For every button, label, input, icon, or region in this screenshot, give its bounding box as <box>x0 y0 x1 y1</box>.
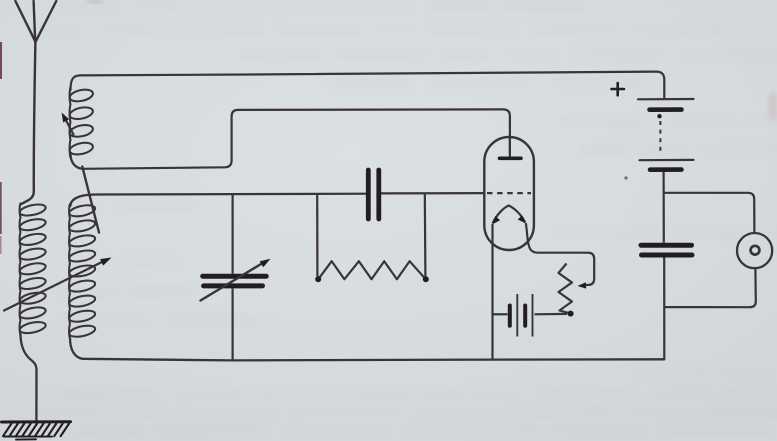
wire: junction to phones top <box>664 193 755 233</box>
wire: B battery to bypass cap <box>662 172 664 243</box>
variable tap arrow for L1 <box>4 258 112 311</box>
wire: tickler top to B battery + <box>80 72 664 99</box>
tickler adjust arrow <box>62 113 74 135</box>
grid leak resistor R1 <box>315 194 429 283</box>
inductor L1 antenna coil <box>19 202 47 421</box>
bypass capacitor C3 <box>641 245 692 255</box>
antenna <box>15 1 56 204</box>
wire: phones bottom to rail junction <box>664 268 756 307</box>
variable capacitor C1 <box>201 194 271 360</box>
wire: filament right leg to rheostat <box>526 223 594 286</box>
inductor L2 secondary coil <box>68 195 97 359</box>
wire: grid lead <box>97 193 366 196</box>
wire: filament left leg down <box>491 224 493 359</box>
variable tap line for L2 <box>82 167 99 233</box>
wire: tickler bottom to plate <box>83 109 510 168</box>
wire: bottom rail <box>82 359 664 361</box>
battery B2 (plate supply) <box>612 83 694 170</box>
rheostat R2 <box>559 264 574 317</box>
ground (earth) <box>2 422 71 440</box>
grid capacitor C2 <box>368 170 379 219</box>
phones P <box>737 233 772 268</box>
inductor L3 tickler coil <box>69 75 94 168</box>
vacuum tube V1 (triode) <box>484 137 534 250</box>
battery B1 (filament) <box>493 294 568 337</box>
wire: bypass cap to rail <box>663 258 665 360</box>
